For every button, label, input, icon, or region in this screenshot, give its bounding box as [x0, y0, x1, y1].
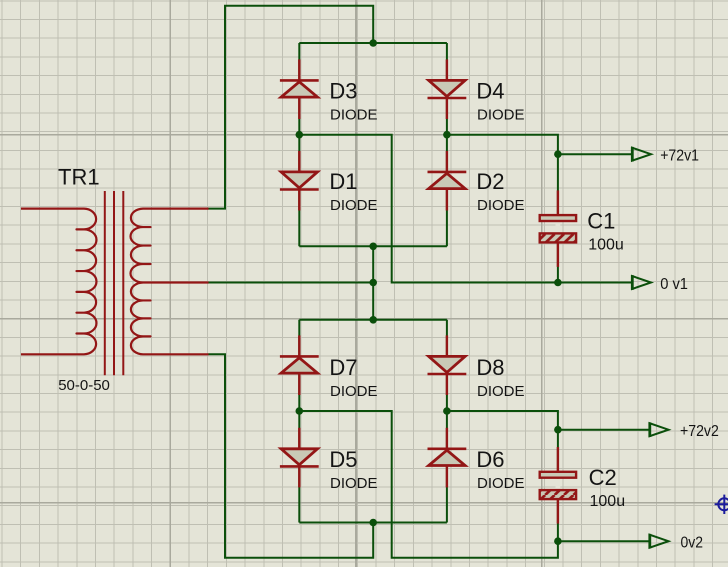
- node bridge2 bottom: [369, 519, 377, 527]
- wire D3-D1 junction to 0v1 rail: [299, 135, 558, 283]
- node D3 D1 junction: [296, 131, 304, 139]
- wire D7-D5 junction to 0v2: [299, 411, 558, 558]
- svg-text:D6: D6: [476, 447, 504, 472]
- node D4 D2 junction: [443, 131, 451, 139]
- svg-text:D4: D4: [476, 79, 504, 104]
- wire D2 column: [446, 135, 448, 247]
- node centre tap: [369, 279, 377, 287]
- wire C2 column: [557, 430, 559, 542]
- svg-text:D1: D1: [329, 169, 357, 194]
- wire C1 column: [557, 154, 559, 282]
- svg-text:C2: C2: [589, 465, 617, 490]
- svg-text:+72v2: +72v2: [680, 423, 719, 440]
- svg-text:D3: D3: [329, 79, 357, 104]
- terminal 0v2: [650, 534, 669, 549]
- wire centre column: [372, 246, 374, 319]
- wire bridge2 top rail: [299, 319, 447, 321]
- diode D7: [280, 335, 319, 395]
- capacitor C1: [540, 190, 576, 267]
- diode D6: [428, 428, 467, 488]
- node +72v1 junction: [554, 150, 562, 158]
- wire secondary top to bridge1: [209, 6, 374, 209]
- node +72v2 junction: [554, 426, 562, 434]
- wire D4 column: [446, 43, 448, 135]
- svg-text:DIODE: DIODE: [330, 383, 378, 400]
- wire D5 column: [298, 411, 300, 523]
- wire 0v1 stub: [558, 282, 632, 284]
- wire bridge2 bottom rail: [299, 522, 447, 524]
- wire 0v2 stub: [558, 540, 650, 542]
- terminal 0v1: [632, 275, 651, 290]
- wire bridge1 top rail: [299, 42, 447, 44]
- node 0v2 junction: [554, 537, 562, 545]
- terminal +72v1: [632, 147, 651, 162]
- terminal +72v2: [650, 422, 669, 437]
- svg-text:D7: D7: [329, 355, 357, 380]
- origin marker: [715, 495, 728, 514]
- node bridge1 bottom: [369, 243, 377, 251]
- svg-text:+72v1: +72v1: [660, 148, 699, 165]
- svg-text:C1: C1: [587, 208, 615, 233]
- svg-text:TR1: TR1: [58, 164, 100, 189]
- svg-text:0 v1: 0 v1: [660, 276, 688, 293]
- svg-text:D8: D8: [476, 355, 504, 380]
- diode D2: [428, 151, 467, 211]
- wire bridge1 bottom rail: [299, 245, 447, 247]
- wire D8 column: [446, 320, 448, 411]
- wire D3 column: [298, 43, 300, 135]
- diode D3: [280, 59, 319, 119]
- svg-text:100u: 100u: [590, 493, 626, 510]
- svg-text:0v2: 0v2: [681, 535, 704, 552]
- svg-text:D2: D2: [476, 169, 504, 194]
- wire secondary bottom to bridge2: [209, 354, 374, 558]
- diode D8: [428, 335, 467, 395]
- diode D4: [428, 59, 467, 119]
- svg-text:DIODE: DIODE: [330, 197, 378, 214]
- svg-text:DIODE: DIODE: [477, 475, 525, 492]
- node D8 D6 junction: [443, 407, 451, 415]
- svg-text:50-0-50: 50-0-50: [58, 377, 110, 394]
- wire D1 column: [298, 135, 300, 247]
- wire centre tap to node: [209, 282, 374, 284]
- diode D1: [280, 151, 319, 211]
- capacitor C2: [540, 447, 576, 523]
- wire D4-D2 junction to +72v1: [447, 135, 558, 155]
- wire D6 column: [446, 411, 448, 523]
- wire +72v1 stub: [558, 153, 632, 155]
- diode D5: [280, 428, 319, 488]
- transformer TR1: [21, 191, 209, 375]
- wire D8-D6 junction to +72v2: [447, 411, 558, 430]
- node D7 D5 junction: [296, 407, 304, 415]
- svg-text:D5: D5: [329, 447, 357, 472]
- svg-text:100u: 100u: [588, 237, 624, 254]
- wire D7 column: [298, 320, 300, 411]
- wire +72v2 stub: [558, 429, 650, 431]
- svg-text:DIODE: DIODE: [477, 197, 525, 214]
- svg-text:DIODE: DIODE: [330, 107, 378, 124]
- svg-text:DIODE: DIODE: [477, 107, 525, 124]
- node bridge1 top: [369, 39, 377, 47]
- node 0v1 junction: [554, 279, 562, 287]
- node bridge2 top: [369, 316, 377, 324]
- svg-text:DIODE: DIODE: [477, 383, 525, 400]
- svg-text:DIODE: DIODE: [330, 475, 378, 492]
